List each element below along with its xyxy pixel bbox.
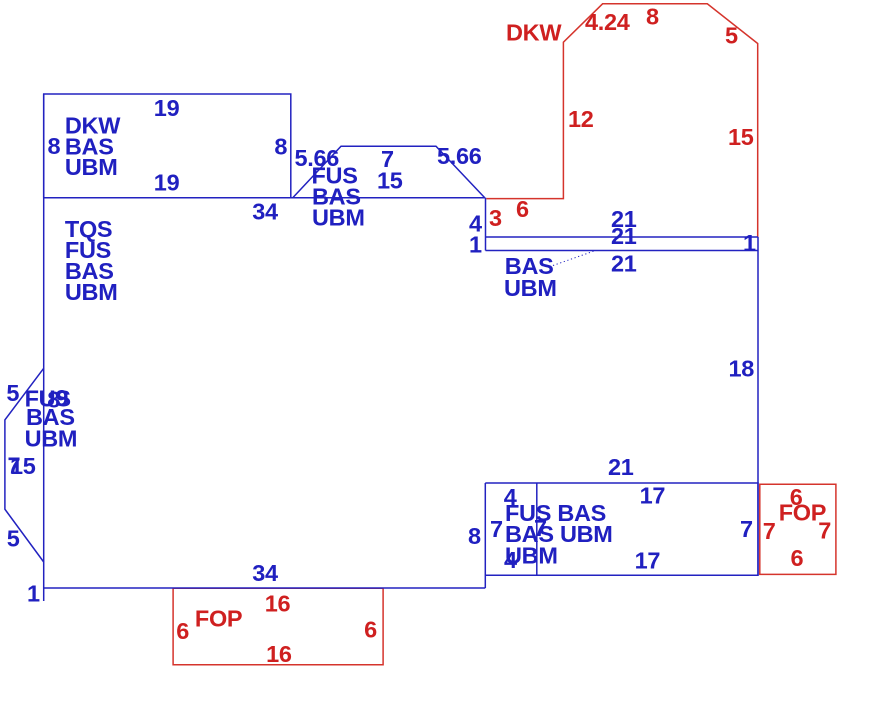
svg-text:8: 8	[646, 4, 659, 30]
svg-text:UBM: UBM	[65, 154, 118, 180]
svg-text:16: 16	[266, 641, 292, 667]
svg-text:7: 7	[534, 515, 547, 541]
svg-text:8: 8	[48, 133, 61, 159]
svg-text:5: 5	[7, 526, 20, 552]
svg-text:19: 19	[154, 170, 180, 196]
svg-text:6: 6	[516, 196, 529, 222]
svg-text:4: 4	[504, 547, 517, 573]
svg-text:8: 8	[274, 134, 287, 160]
svg-text:18: 18	[729, 356, 755, 382]
svg-text:21: 21	[611, 223, 637, 249]
svg-text:7: 7	[740, 516, 753, 542]
svg-text:1: 1	[743, 230, 756, 256]
svg-text:21: 21	[608, 454, 634, 480]
svg-text:UBM: UBM	[65, 279, 118, 305]
svg-text:21: 21	[611, 251, 637, 277]
svg-text:5: 5	[6, 380, 19, 406]
svg-text:19: 19	[154, 95, 180, 121]
svg-text:7: 7	[763, 518, 776, 544]
svg-text:1: 1	[27, 581, 40, 607]
svg-text:17: 17	[640, 483, 666, 509]
svg-text:UBM: UBM	[504, 275, 557, 301]
svg-text:UBM: UBM	[25, 426, 78, 452]
svg-text:34: 34	[252, 199, 278, 225]
svg-text:UBM: UBM	[312, 205, 365, 231]
svg-text:16: 16	[265, 591, 291, 617]
svg-text:17: 17	[635, 548, 661, 574]
svg-text:15: 15	[728, 124, 754, 150]
svg-text:6: 6	[791, 545, 804, 571]
svg-text:3: 3	[489, 205, 502, 231]
svg-text:5.66: 5.66	[437, 143, 482, 169]
svg-text:12: 12	[568, 106, 594, 132]
svg-text:8: 8	[468, 523, 481, 549]
svg-text:6: 6	[364, 617, 377, 643]
svg-text:FOP: FOP	[195, 606, 242, 632]
svg-text:1: 1	[469, 232, 482, 258]
svg-text:7: 7	[490, 516, 503, 542]
svg-text:4.24: 4.24	[585, 9, 630, 35]
svg-text:6: 6	[176, 618, 189, 644]
svg-text:34: 34	[252, 560, 278, 586]
svg-text:5: 5	[725, 23, 738, 49]
svg-text:DKW: DKW	[506, 20, 562, 46]
svg-text:7: 7	[818, 518, 831, 544]
svg-text:15: 15	[377, 168, 403, 194]
svg-text:15: 15	[10, 453, 36, 479]
